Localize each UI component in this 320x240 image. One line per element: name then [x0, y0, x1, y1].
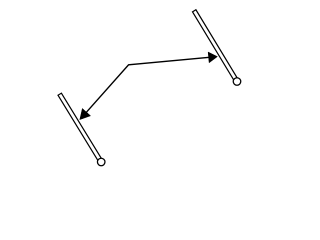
rod B ball end	[97, 158, 105, 166]
double-headed arrow line (bent)	[85, 57, 212, 114]
rod B (lower left) body	[58, 93, 103, 163]
arrowhead right (points at rod A)	[208, 52, 217, 63]
rod A ball end	[233, 78, 241, 86]
arrowhead left (points at rod B)	[80, 108, 91, 119]
rod A (upper right) body	[192, 10, 238, 83]
